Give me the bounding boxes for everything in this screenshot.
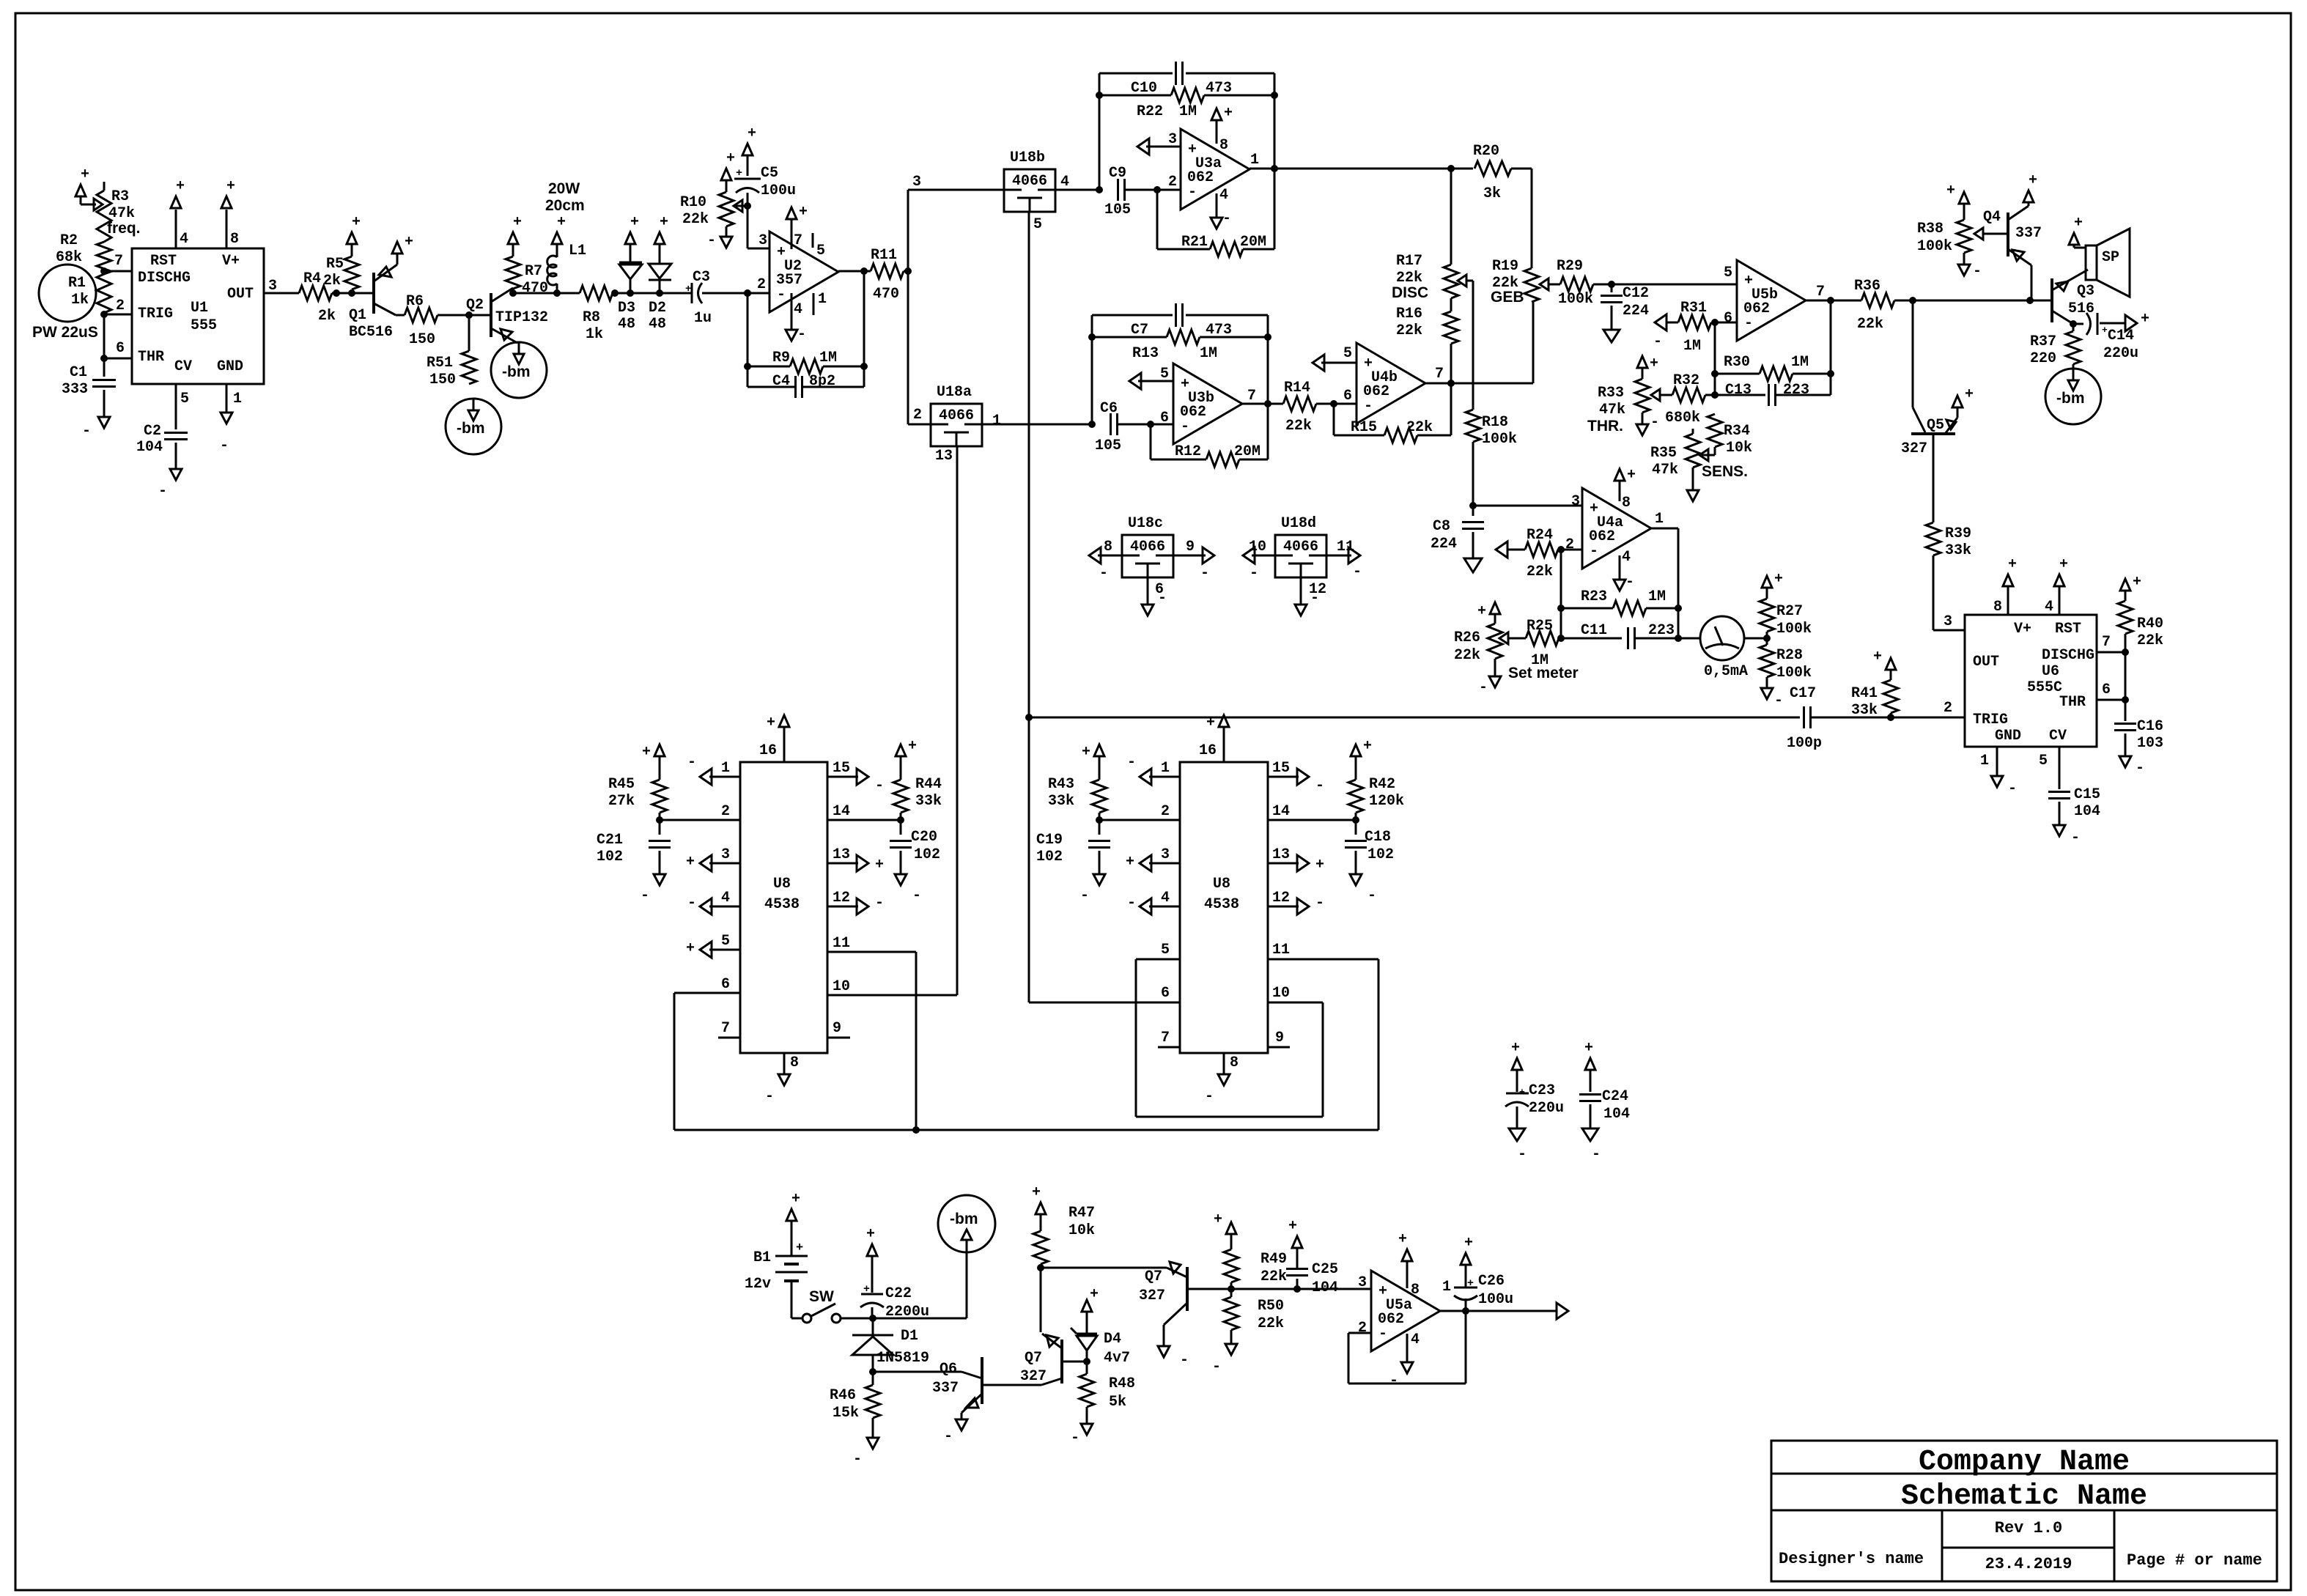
svg-text:C25: C25 [1312, 1261, 1338, 1278]
svg-text:C11: C11 [1581, 622, 1607, 639]
svg-text:RST: RST [150, 253, 177, 270]
svg-text:8: 8 [230, 231, 239, 248]
svg-text:TIP132: TIP132 [495, 309, 548, 326]
svg-text:R16: R16 [1396, 306, 1422, 322]
svg-text:+: + [2133, 574, 2141, 591]
svg-text:-: - [1653, 333, 1662, 350]
svg-text:R43: R43 [1048, 776, 1074, 793]
svg-text:Q7: Q7 [1025, 1350, 1042, 1367]
svg-text:22k: 22k [1406, 419, 1433, 436]
svg-text:10k: 10k [1068, 1222, 1095, 1239]
svg-text:5: 5 [721, 933, 730, 950]
svg-text:+: + [1288, 1218, 1297, 1235]
svg-text:-: - [1310, 590, 1319, 607]
svg-text:1u: 1u [694, 310, 712, 327]
svg-text:4v7: 4v7 [1104, 1350, 1130, 1367]
svg-text:R28: R28 [1776, 647, 1803, 664]
svg-text:1M: 1M [1200, 345, 1217, 362]
svg-text:+: + [2059, 556, 2068, 573]
svg-text:R39: R39 [1945, 525, 1971, 542]
svg-text:DISC: DISC [1392, 284, 1428, 301]
svg-text:20cm: 20cm [545, 197, 585, 214]
svg-text:12: 12 [833, 890, 850, 906]
svg-text:100k: 100k [1482, 431, 1517, 448]
svg-text:GND: GND [1995, 728, 2021, 745]
svg-text:Q2: Q2 [466, 297, 484, 314]
svg-text:Q5: Q5 [1927, 417, 1944, 434]
svg-text:33k: 33k [1945, 542, 1971, 559]
svg-text:104: 104 [2074, 803, 2100, 820]
svg-text:-: - [1200, 565, 1209, 582]
svg-text:U18c: U18c [1128, 515, 1163, 532]
svg-text:U8: U8 [773, 876, 791, 893]
svg-text:R22: R22 [1137, 103, 1163, 120]
svg-text:-: - [1315, 895, 1324, 912]
svg-text:7: 7 [2102, 634, 2111, 651]
svg-text:8: 8 [1993, 599, 2002, 616]
svg-text:R24: R24 [1527, 527, 1553, 544]
svg-text:R37: R37 [2030, 333, 2056, 350]
svg-text:1: 1 [1442, 1279, 1451, 1296]
svg-text:6: 6 [1343, 388, 1352, 404]
svg-text:C2: C2 [144, 423, 161, 440]
svg-text:+: + [1224, 105, 1233, 122]
svg-text:+: + [2008, 556, 2017, 573]
svg-text:+: + [2141, 311, 2149, 328]
svg-text:+: + [1363, 738, 1372, 755]
svg-text:+: + [630, 214, 639, 231]
svg-text:U18d: U18d [1281, 515, 1316, 532]
svg-text:100k: 100k [1776, 621, 1812, 638]
svg-text:5: 5 [816, 243, 825, 259]
svg-text:12v: 12v [745, 1276, 771, 1293]
svg-text:R12: R12 [1175, 443, 1201, 460]
svg-text:R19: R19 [1492, 258, 1518, 275]
svg-text:062: 062 [1378, 1311, 1404, 1328]
svg-text:+: + [748, 125, 756, 142]
svg-text:R41: R41 [1851, 685, 1878, 702]
svg-text:1M: 1M [1648, 588, 1666, 605]
svg-text:Q1: Q1 [349, 307, 366, 324]
svg-text:4: 4 [794, 301, 802, 318]
svg-text:4066: 4066 [1283, 539, 1318, 555]
svg-text:+: + [1584, 1040, 1593, 1057]
svg-text:C22: C22 [885, 1285, 912, 1302]
svg-text:-: - [1518, 1146, 1527, 1163]
svg-text:2: 2 [1161, 803, 1170, 820]
svg-text:-: - [1774, 692, 1783, 709]
svg-text:BC516: BC516 [349, 324, 393, 341]
svg-text:2: 2 [721, 803, 730, 820]
svg-text:13: 13 [1272, 846, 1290, 863]
svg-text:11: 11 [1337, 539, 1354, 555]
svg-text:C13: C13 [1725, 382, 1752, 399]
svg-text:C9: C9 [1109, 165, 1126, 182]
svg-text:100u: 100u [1478, 1291, 1513, 1308]
svg-text:2: 2 [913, 407, 922, 424]
svg-text:104: 104 [1603, 1106, 1630, 1123]
svg-text:4: 4 [721, 890, 730, 906]
svg-text:-: - [1389, 1373, 1398, 1389]
svg-text:-: - [82, 423, 91, 440]
svg-text:R47: R47 [1068, 1205, 1095, 1222]
svg-text:OUT: OUT [1973, 654, 1999, 670]
svg-text:C3: C3 [693, 269, 710, 286]
svg-text:+: + [726, 150, 735, 167]
svg-text:+: + [405, 234, 413, 251]
svg-text:C6: C6 [1100, 400, 1118, 417]
svg-text:V+: V+ [222, 253, 240, 270]
svg-text:224: 224 [1623, 303, 1649, 319]
svg-text:R8: R8 [583, 309, 600, 326]
svg-text:4066: 4066 [1012, 173, 1047, 190]
svg-text:C18: C18 [1365, 829, 1391, 846]
svg-text:R30: R30 [1724, 354, 1750, 371]
svg-text:1: 1 [1250, 152, 1259, 169]
svg-text:-bm: -bm [2056, 390, 2085, 407]
svg-text:+: + [226, 178, 235, 195]
svg-text:+: + [1627, 467, 1636, 484]
svg-text:R36: R36 [1854, 278, 1880, 295]
svg-text:Company Name: Company Name [1919, 1446, 2130, 1479]
svg-text:4: 4 [1622, 549, 1631, 566]
svg-text:-: - [1222, 210, 1231, 227]
svg-text:102: 102 [597, 849, 623, 865]
svg-text:-: - [912, 887, 921, 904]
svg-text:100k: 100k [1776, 665, 1812, 681]
svg-text:-: - [1180, 1352, 1189, 1369]
svg-text:+: + [1965, 386, 1974, 403]
svg-text:14: 14 [1272, 803, 1290, 820]
svg-text:DISCHG: DISCHG [2042, 647, 2094, 664]
svg-text:+: + [1090, 1286, 1099, 1303]
svg-text:4: 4 [2045, 599, 2053, 616]
svg-text:-: - [1205, 1088, 1214, 1105]
svg-text:+: + [2029, 172, 2037, 189]
svg-text:47k: 47k [1599, 402, 1625, 418]
svg-text:U8: U8 [1213, 876, 1230, 893]
svg-text:+: + [1032, 1184, 1041, 1201]
svg-text:Page # or name: Page # or name [2127, 1551, 2262, 1570]
svg-text:150: 150 [429, 372, 456, 388]
svg-text:+: + [1774, 571, 1783, 588]
svg-text:4: 4 [1411, 1331, 1420, 1348]
svg-text:+: + [642, 744, 651, 761]
svg-text:+: + [863, 1283, 870, 1296]
svg-text:12: 12 [1272, 890, 1290, 906]
svg-text:-: - [1158, 590, 1167, 607]
svg-text:R31: R31 [1680, 300, 1707, 317]
svg-text:470: 470 [873, 286, 899, 303]
svg-text:-: - [1127, 754, 1136, 771]
svg-text:22k: 22k [1396, 322, 1422, 339]
svg-text:-: - [853, 1451, 862, 1468]
svg-text:R26: R26 [1454, 629, 1480, 646]
svg-text:C16: C16 [2137, 718, 2163, 735]
svg-text:-: - [1479, 679, 1488, 696]
svg-text:R20: R20 [1473, 143, 1499, 160]
svg-text:R27: R27 [1776, 603, 1803, 620]
svg-text:SW: SW [809, 1288, 834, 1305]
svg-text:D1: D1 [901, 1328, 918, 1345]
svg-text:1k: 1k [71, 292, 89, 309]
svg-text:10: 10 [1272, 985, 1290, 1002]
svg-text:-: - [765, 1088, 774, 1105]
svg-text:16: 16 [1199, 742, 1217, 759]
svg-text:4066: 4066 [939, 407, 974, 424]
svg-text:-: - [1080, 887, 1089, 904]
svg-text:220u: 220u [2103, 345, 2138, 362]
svg-text:8: 8 [1219, 137, 1228, 154]
svg-text:+: + [866, 1226, 875, 1243]
svg-text:5: 5 [1724, 265, 1732, 281]
svg-text:+: + [875, 857, 884, 873]
svg-text:U18a: U18a [937, 384, 972, 401]
svg-text:CV: CV [174, 358, 192, 375]
svg-text:R51: R51 [427, 355, 453, 372]
svg-text:2: 2 [1168, 174, 1177, 191]
svg-text:22k: 22k [1857, 316, 1883, 333]
svg-text:10: 10 [833, 978, 850, 995]
svg-text:+: + [557, 214, 566, 231]
svg-text:Q4: Q4 [1983, 209, 2001, 226]
svg-text:-: - [1625, 574, 1634, 591]
svg-text:-: - [797, 326, 806, 343]
svg-text:R6: R6 [406, 293, 424, 310]
svg-text:337: 337 [2015, 225, 2042, 242]
svg-text:R40: R40 [2137, 616, 2163, 632]
svg-text:22k: 22k [2137, 632, 2163, 649]
svg-text:-: - [1364, 398, 1373, 415]
svg-text:-bm: -bm [502, 363, 531, 380]
svg-text:2: 2 [757, 276, 766, 293]
svg-text:+: + [1467, 1277, 1474, 1290]
svg-text:100u: 100u [761, 182, 796, 199]
svg-text:4538: 4538 [764, 896, 800, 913]
svg-text:THR: THR [2059, 694, 2086, 711]
svg-text:1: 1 [233, 391, 242, 407]
svg-text:9: 9 [1275, 1030, 1284, 1046]
svg-text:R3: R3 [111, 188, 129, 205]
svg-text:R18: R18 [1482, 414, 1508, 431]
svg-text:9: 9 [1186, 539, 1195, 555]
svg-text:R38: R38 [1917, 221, 1944, 237]
svg-text:5: 5 [2039, 753, 2048, 769]
svg-text:337: 337 [932, 1380, 959, 1397]
svg-text:R4: R4 [303, 270, 321, 287]
svg-text:5k: 5k [1109, 1394, 1126, 1411]
svg-text:R11: R11 [871, 247, 897, 264]
svg-text:120k: 120k [1369, 793, 1404, 810]
svg-text:C20: C20 [911, 829, 937, 846]
svg-text:+: + [2074, 215, 2083, 232]
svg-text:516: 516 [2068, 300, 2094, 317]
svg-text:20M: 20M [1234, 443, 1260, 460]
svg-text:+: + [767, 714, 775, 731]
svg-text:3: 3 [268, 278, 277, 295]
svg-text:7: 7 [1161, 1030, 1170, 1046]
svg-text:13: 13 [833, 846, 850, 863]
svg-text:-: - [687, 895, 696, 912]
svg-text:-: - [1592, 1146, 1601, 1163]
svg-text:470: 470 [522, 280, 548, 297]
svg-text:102: 102 [1036, 849, 1063, 865]
svg-text:V+: V+ [2014, 621, 2031, 638]
svg-text:U1: U1 [191, 300, 208, 317]
svg-text:R17: R17 [1396, 253, 1422, 270]
svg-text:+: + [176, 178, 185, 195]
svg-text:4: 4 [1219, 187, 1228, 204]
svg-text:-: - [875, 777, 884, 794]
svg-text:4: 4 [180, 231, 188, 248]
svg-text:100p: 100p [1787, 735, 1822, 752]
svg-text:+: + [1126, 854, 1134, 871]
svg-text:+: + [686, 854, 695, 871]
svg-text:+: + [799, 204, 808, 221]
svg-text:8p2: 8p2 [809, 373, 835, 390]
svg-text:-: - [1212, 1359, 1221, 1375]
svg-text:DISCHG: DISCHG [138, 270, 191, 287]
svg-text:C14: C14 [2108, 328, 2134, 344]
svg-text:-: - [944, 1428, 953, 1445]
svg-text:2k: 2k [318, 308, 336, 325]
svg-text:1M: 1M [1791, 354, 1809, 371]
svg-text:8: 8 [790, 1054, 799, 1071]
svg-text:-: - [1378, 1326, 1387, 1342]
svg-text:+: + [686, 940, 695, 957]
svg-text:-: - [1353, 564, 1362, 580]
svg-text:102: 102 [1367, 846, 1394, 863]
svg-text:220: 220 [2030, 350, 2056, 367]
svg-text:3k: 3k [1483, 185, 1501, 202]
svg-text:+: + [1946, 182, 1955, 199]
svg-text:-: - [1367, 887, 1376, 904]
svg-text:47k: 47k [1652, 462, 1678, 479]
svg-text:1: 1 [992, 413, 1001, 429]
svg-text:10: 10 [1249, 539, 1266, 555]
svg-text:2: 2 [1565, 536, 1574, 553]
svg-text:+: + [1873, 649, 1882, 665]
svg-text:THR.: THR. [1587, 418, 1623, 435]
svg-text:7: 7 [114, 253, 123, 270]
svg-text:+: + [791, 1191, 800, 1208]
svg-text:33k: 33k [1851, 702, 1878, 719]
svg-text:+: + [685, 284, 691, 295]
svg-text:6: 6 [2102, 681, 2111, 698]
svg-text:48: 48 [618, 316, 635, 333]
svg-text:Rev 1.0: Rev 1.0 [1995, 1519, 2062, 1537]
svg-text:33k: 33k [915, 793, 942, 810]
svg-text:C12: C12 [1623, 285, 1649, 302]
svg-text:R34: R34 [1724, 423, 1750, 440]
svg-text:1M: 1M [819, 350, 837, 366]
svg-text:R50: R50 [1258, 1298, 1284, 1315]
svg-text:10k: 10k [1726, 440, 1752, 457]
svg-text:22k: 22k [1258, 1315, 1284, 1332]
svg-text:15k: 15k [833, 1405, 859, 1422]
svg-text:3: 3 [758, 232, 767, 249]
svg-text:1: 1 [1655, 511, 1664, 528]
svg-text:R42: R42 [1369, 776, 1395, 793]
svg-text:+: + [1511, 1040, 1520, 1057]
svg-text:220u: 220u [1529, 1100, 1564, 1117]
svg-text:104: 104 [136, 439, 163, 456]
svg-text:3: 3 [721, 846, 730, 863]
svg-text:R35: R35 [1650, 445, 1677, 462]
svg-text:-: - [875, 895, 884, 912]
svg-text:+: + [1650, 355, 1658, 372]
svg-text:6: 6 [1160, 410, 1169, 426]
svg-text:+: + [81, 166, 89, 183]
svg-text:327: 327 [1020, 1368, 1047, 1385]
svg-text:C26: C26 [1478, 1273, 1505, 1290]
svg-text:Set meter: Set meter [1508, 665, 1579, 681]
svg-text:15: 15 [1272, 760, 1290, 777]
svg-text:C4: C4 [772, 373, 790, 390]
svg-text:2: 2 [116, 298, 125, 314]
svg-text:1N5819: 1N5819 [876, 1350, 929, 1367]
svg-text:1k: 1k [586, 326, 603, 343]
svg-text:-: - [1188, 184, 1197, 201]
svg-text:U18b: U18b [1010, 149, 1045, 166]
svg-text:C24: C24 [1602, 1088, 1628, 1105]
svg-text:4538: 4538 [1204, 896, 1239, 913]
svg-text:R33: R33 [1598, 385, 1624, 402]
svg-text:R45: R45 [608, 776, 635, 793]
svg-text:8: 8 [1230, 1054, 1239, 1071]
svg-text:22k: 22k [1454, 647, 1480, 664]
svg-text:OUT: OUT [227, 286, 254, 303]
svg-text:-: - [1650, 414, 1659, 431]
svg-text:SENS.: SENS. [1702, 463, 1748, 480]
svg-text:D3: D3 [618, 300, 635, 317]
svg-text:R29: R29 [1557, 258, 1583, 275]
svg-text:20W: 20W [548, 180, 580, 197]
svg-text:-: - [2008, 780, 2017, 797]
svg-text:-: - [158, 483, 167, 500]
svg-text:C1: C1 [70, 364, 87, 381]
svg-text:5: 5 [1161, 942, 1170, 958]
svg-text:102: 102 [914, 846, 940, 863]
svg-text:R46: R46 [830, 1387, 856, 1404]
svg-text:Q6: Q6 [940, 1361, 957, 1378]
svg-text:327: 327 [1901, 440, 1927, 457]
svg-text:Q3: Q3 [2077, 283, 2094, 300]
svg-text:3: 3 [912, 174, 921, 191]
svg-text:R14: R14 [1284, 380, 1310, 396]
svg-text:14: 14 [833, 803, 850, 820]
svg-text:105: 105 [1104, 202, 1131, 218]
svg-text:22k: 22k [1285, 418, 1312, 435]
svg-text:5: 5 [180, 391, 189, 407]
svg-text:7: 7 [721, 1020, 730, 1037]
svg-text:062: 062 [1743, 300, 1770, 317]
svg-text:4: 4 [1060, 174, 1069, 191]
svg-text:-: - [1099, 565, 1108, 582]
svg-text:6: 6 [1724, 310, 1732, 327]
svg-text:11: 11 [833, 935, 850, 952]
svg-text:6: 6 [1161, 985, 1170, 1002]
svg-text:Q7: Q7 [1145, 1268, 1162, 1285]
svg-text:+: + [660, 214, 668, 231]
svg-text:-: - [2071, 830, 2080, 846]
svg-text:C23: C23 [1529, 1082, 1555, 1099]
svg-text:2: 2 [1944, 700, 1952, 717]
svg-text:22k: 22k [1260, 1268, 1287, 1285]
svg-text:+: + [1214, 1211, 1222, 1228]
svg-text:3: 3 [1358, 1274, 1367, 1291]
svg-text:7: 7 [1247, 388, 1256, 404]
